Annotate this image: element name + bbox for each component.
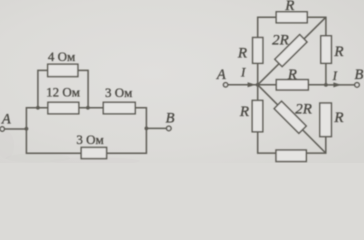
resistor 2R box bottom diagonal xyxy=(274,101,306,133)
svg-text:I: I xyxy=(240,64,246,79)
wire B junction to terminal B xyxy=(146,127,166,129)
wire 3 Om to B junction xyxy=(135,108,146,129)
terminal A (left circuit) xyxy=(0,127,4,131)
paper background xyxy=(0,0,364,163)
wire N1 to middle R xyxy=(258,84,277,86)
svg-text:I: I xyxy=(332,68,338,83)
svg-text:B: B xyxy=(166,110,175,126)
resistor R box top-right vertical xyxy=(321,36,332,64)
wire N2 to terminal B xyxy=(326,84,355,86)
resistor 12 Om box xyxy=(48,102,79,114)
node N1 right circuit xyxy=(256,83,260,87)
current arrow into N1 xyxy=(248,82,256,87)
svg-text:R: R xyxy=(239,104,249,120)
junction dot between 12 Om and 3 Om xyxy=(86,106,90,110)
terminal B (left circuit) xyxy=(167,126,172,131)
wire A to node N1 xyxy=(228,84,258,86)
resistor 3 Om box (bottom) xyxy=(81,147,106,158)
wire A to junction xyxy=(5,128,27,130)
resistor R box top-left vertical xyxy=(253,38,263,64)
resistor R box middle xyxy=(276,80,308,90)
resistor 4 Om box xyxy=(48,64,78,76)
svg-text:R: R xyxy=(284,0,294,14)
resistor R box bottom-left vertical xyxy=(252,100,263,131)
current arrow out of N2 xyxy=(333,82,341,87)
resistor box bottom horizontal xyxy=(276,150,306,162)
diagonal wire N1 to bottom-right corner xyxy=(258,85,326,153)
wire junction up to middle rail xyxy=(26,108,48,129)
wire bottom-right corner xyxy=(306,137,326,154)
svg-text:2R: 2R xyxy=(295,101,312,117)
wire between 12 Om and 3 Om xyxy=(79,107,104,109)
wire top branch right xyxy=(78,70,88,107)
wire bottom branch left xyxy=(26,129,81,153)
svg-text:A: A xyxy=(1,112,11,128)
resistor 3 Om box (middle) xyxy=(103,102,135,114)
svg-text:R: R xyxy=(237,46,247,62)
wire bottom-left corner xyxy=(258,132,276,153)
svg-text:3 Ом: 3 Ом xyxy=(76,132,103,147)
svg-text:B: B xyxy=(354,67,363,83)
svg-text:R: R xyxy=(333,110,343,126)
svg-text:R: R xyxy=(333,44,343,60)
node N2 right circuit xyxy=(324,83,328,87)
wire top branch left xyxy=(38,70,48,107)
junction dot left circuit A-side xyxy=(25,127,29,131)
svg-text:4 Ом: 4 Ом xyxy=(48,49,75,64)
svg-text:3 Ом: 3 Ом xyxy=(105,85,132,100)
wire bottom branch right xyxy=(107,128,147,153)
junction dot top branch left xyxy=(36,106,40,110)
wire top-right box to N2 xyxy=(325,63,327,85)
wire top-left corner xyxy=(258,17,277,37)
resistor R box top horizontal xyxy=(276,12,307,23)
svg-text:R: R xyxy=(287,67,297,83)
svg-text:2R: 2R xyxy=(272,33,289,49)
wire middle R to N2 xyxy=(308,84,326,86)
terminal B (right circuit) xyxy=(355,83,360,88)
terminal A (right circuit) xyxy=(223,83,227,87)
wire N1 down xyxy=(257,85,259,101)
junction dot left circuit B-side xyxy=(145,126,149,130)
diagonal wire N1 to top-right corner xyxy=(258,17,326,85)
svg-text:A: A xyxy=(216,67,226,83)
wire top-right corner xyxy=(307,17,326,36)
resistor R box bottom-right vertical xyxy=(320,103,332,137)
svg-text:12 Ом: 12 Ом xyxy=(46,85,80,100)
wire N1 up xyxy=(257,63,259,85)
resistor 2R box top diagonal xyxy=(275,35,307,67)
